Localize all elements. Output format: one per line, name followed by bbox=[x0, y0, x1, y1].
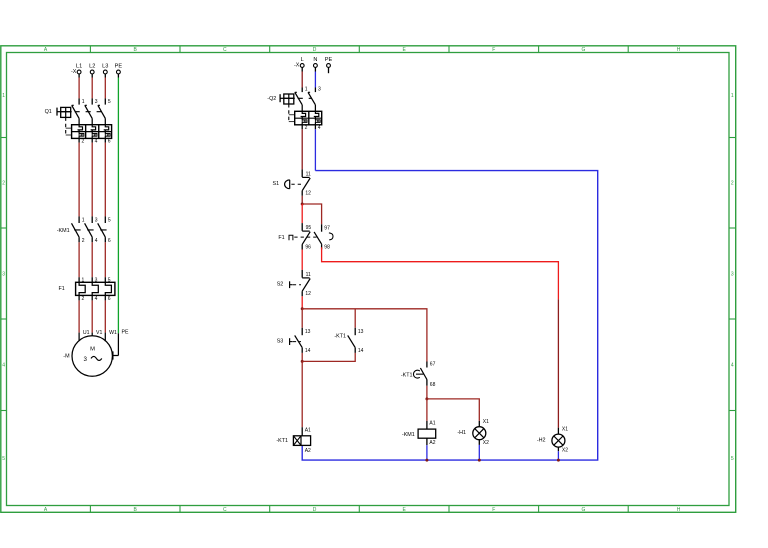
svg-text:S1: S1 bbox=[273, 181, 280, 187]
svg-text:-KT1: -KT1 bbox=[401, 372, 413, 378]
svg-text:1: 1 bbox=[82, 277, 85, 283]
svg-text:2: 2 bbox=[731, 181, 734, 187]
svg-text:3: 3 bbox=[95, 99, 98, 105]
svg-text:Q1: Q1 bbox=[45, 109, 52, 115]
svg-text:L1: L1 bbox=[76, 64, 82, 70]
svg-text:5: 5 bbox=[2, 456, 5, 462]
svg-text:5: 5 bbox=[108, 99, 111, 105]
svg-text:2: 2 bbox=[82, 238, 85, 244]
svg-text:2: 2 bbox=[305, 125, 308, 131]
svg-text:68: 68 bbox=[430, 382, 436, 388]
svg-text:1: 1 bbox=[2, 93, 5, 99]
svg-text:C: C bbox=[223, 507, 227, 513]
svg-text:67: 67 bbox=[430, 362, 436, 368]
svg-text:95: 95 bbox=[306, 225, 312, 231]
svg-text:12: 12 bbox=[305, 191, 311, 197]
svg-text:3: 3 bbox=[2, 271, 5, 277]
svg-text:13: 13 bbox=[358, 329, 364, 335]
svg-text:5: 5 bbox=[731, 456, 734, 462]
svg-text:1: 1 bbox=[82, 217, 85, 223]
svg-text:13: 13 bbox=[305, 329, 311, 335]
svg-text:F: F bbox=[492, 507, 495, 513]
svg-text:98: 98 bbox=[324, 244, 330, 250]
svg-text:U1: U1 bbox=[83, 330, 90, 336]
svg-text:12: 12 bbox=[305, 291, 311, 297]
svg-text:X2: X2 bbox=[562, 448, 568, 454]
svg-text:5: 5 bbox=[108, 217, 111, 223]
svg-text:96: 96 bbox=[305, 244, 311, 250]
svg-text:X1: X1 bbox=[483, 419, 489, 425]
svg-text:-Q2: -Q2 bbox=[267, 96, 276, 102]
svg-text:6: 6 bbox=[108, 296, 111, 302]
svg-text:A2: A2 bbox=[305, 448, 311, 454]
svg-text:V1: V1 bbox=[96, 330, 102, 336]
svg-text:C: C bbox=[223, 47, 227, 53]
svg-text:PE: PE bbox=[325, 57, 333, 63]
svg-text:-H1: -H1 bbox=[457, 430, 466, 436]
svg-text:F1: F1 bbox=[278, 235, 284, 241]
svg-text:D: D bbox=[313, 507, 317, 513]
svg-text:3: 3 bbox=[95, 277, 98, 283]
svg-text:F: F bbox=[492, 47, 495, 53]
svg-text:L3: L3 bbox=[102, 64, 108, 70]
svg-text:-M: -M bbox=[63, 354, 70, 360]
svg-text:S2: S2 bbox=[277, 282, 284, 288]
svg-text:4: 4 bbox=[2, 363, 5, 369]
svg-text:1: 1 bbox=[731, 93, 734, 99]
svg-text:-X: -X bbox=[294, 63, 300, 69]
svg-text:N: N bbox=[313, 57, 317, 63]
svg-text:-KT1: -KT1 bbox=[334, 333, 346, 339]
svg-text:-KM1: -KM1 bbox=[57, 228, 70, 234]
svg-text:G: G bbox=[581, 47, 585, 53]
svg-text:-KT1: -KT1 bbox=[276, 438, 288, 444]
svg-text:14: 14 bbox=[305, 348, 311, 354]
svg-text:6: 6 bbox=[108, 238, 111, 244]
svg-text:11: 11 bbox=[306, 171, 311, 177]
svg-text:1: 1 bbox=[82, 99, 85, 105]
svg-text:5: 5 bbox=[108, 277, 111, 283]
svg-text:3: 3 bbox=[318, 87, 321, 93]
svg-text:14: 14 bbox=[358, 348, 364, 354]
svg-text:4: 4 bbox=[95, 296, 98, 302]
svg-text:G: G bbox=[581, 507, 585, 513]
svg-text:97: 97 bbox=[324, 226, 330, 232]
svg-text:W1: W1 bbox=[109, 330, 117, 336]
svg-text:2: 2 bbox=[82, 139, 85, 145]
svg-text:A2: A2 bbox=[429, 440, 435, 446]
svg-text:H: H bbox=[677, 47, 681, 53]
svg-text:3: 3 bbox=[83, 356, 87, 363]
svg-text:L2: L2 bbox=[89, 64, 95, 70]
svg-text:X1: X1 bbox=[562, 426, 568, 432]
svg-text:4: 4 bbox=[318, 125, 321, 131]
svg-text:M: M bbox=[90, 346, 95, 352]
svg-text:2: 2 bbox=[2, 181, 5, 187]
svg-text:3: 3 bbox=[731, 271, 734, 277]
svg-text:1: 1 bbox=[305, 87, 308, 93]
svg-text:L: L bbox=[301, 57, 304, 63]
svg-text:A1: A1 bbox=[305, 427, 311, 433]
svg-text:D: D bbox=[313, 47, 317, 53]
svg-text:3: 3 bbox=[95, 217, 98, 223]
svg-text:A1: A1 bbox=[429, 421, 435, 427]
svg-text:11: 11 bbox=[306, 272, 311, 278]
svg-text:4: 4 bbox=[731, 363, 734, 369]
svg-text:4: 4 bbox=[95, 238, 98, 244]
svg-text:X2: X2 bbox=[483, 440, 489, 446]
svg-text:PE: PE bbox=[122, 330, 129, 336]
svg-text:S3: S3 bbox=[277, 339, 284, 345]
svg-text:H: H bbox=[677, 507, 681, 513]
svg-text:-X: -X bbox=[71, 69, 77, 75]
svg-text:PE: PE bbox=[115, 64, 123, 70]
svg-text:4: 4 bbox=[95, 139, 98, 145]
svg-text:2: 2 bbox=[82, 296, 85, 302]
svg-text:-KM1: -KM1 bbox=[402, 432, 415, 438]
svg-text:F1: F1 bbox=[59, 286, 65, 292]
svg-text:-H2: -H2 bbox=[537, 437, 546, 443]
svg-text:6: 6 bbox=[108, 139, 111, 145]
